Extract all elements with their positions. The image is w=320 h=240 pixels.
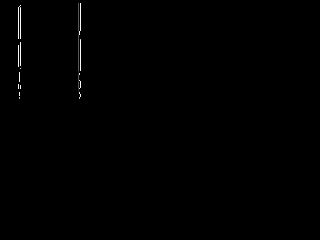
- gray faint (78,91): [78, 90, 79, 92]
- tip dot (19,6): [19, 6, 20, 7]
- lower streak x19 y72-81: [19, 72, 20, 82]
- reflection dot x19 y92-95: [19, 92, 20, 96]
- gray line mid y35-70: [78, 35, 79, 71]
- white line x80 lower y40-70: [80, 40, 81, 71]
- white line x80 upper y3-30: [80, 3, 81, 31]
- loop right side x20 y85-88: [20, 85, 21, 89]
- gray line lower y75-79: [78, 75, 79, 80]
- reflection tail x79 y97-98: [79, 97, 80, 99]
- left line x18 mid segment y45-66: [18, 45, 19, 67]
- capsule top corner (79,80): [79, 80, 80, 81]
- line x20 head (20,7): [20, 7, 21, 8]
- gray line notch y31-34: [78, 31, 79, 35]
- right line x20 mid segment y42-65: [20, 42, 21, 66]
- gap blob x79 y31-34: [79, 31, 80, 35]
- bend faint (21,66): [21, 66, 22, 68]
- gray line x78 upper y3-30: [78, 3, 79, 31]
- gray line notch y71-74: [78, 71, 79, 75]
- right line x20 upper segment y8-38: [20, 8, 21, 39]
- gray line notch y80-81: [78, 80, 79, 82]
- loop left side x18 y84-88: [18, 84, 19, 89]
- left line x18 upper segment y7-38: [18, 7, 19, 39]
- capsule right side x80 y81-87: [80, 81, 81, 88]
- gray line bottom y82-87: [78, 82, 79, 88]
- reflection dot x80 y94-96: [80, 94, 81, 97]
- resume dot (80,39): [80, 39, 81, 40]
- capsule bottom corner (79,88): [79, 88, 80, 89]
- reflection dot x79 y92-93: [79, 92, 80, 94]
- gray line fade y88-91: [78, 88, 79, 90]
- tip dot (20,5): [20, 5, 21, 6]
- reflection tail x19 y97-98: [19, 97, 20, 99]
- right line end dot (20,68): [20, 68, 21, 69]
- post blob x79 y73-74: [79, 73, 80, 75]
